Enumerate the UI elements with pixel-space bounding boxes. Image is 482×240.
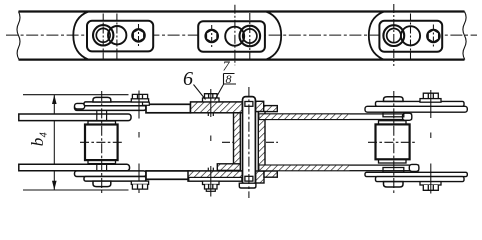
node: arrow up of b4 bbox=[52, 95, 57, 104]
node: bolt3 nut top bbox=[203, 98, 220, 102]
node: left break line bbox=[17, 12, 20, 60]
node: roller left bbox=[85, 125, 118, 161]
node: pin circle left link bbox=[108, 26, 126, 44]
node: nut top bolt2 bbox=[132, 94, 147, 98]
node: middle long plate top bbox=[259, 114, 412, 120]
node: bushing plate stub top pin5 bbox=[383, 112, 404, 117]
node: frame of label 8 bbox=[224, 74, 237, 85]
wire: centerline bolt3 lower bbox=[210, 166, 212, 197]
wire: centerline pin1 top view bbox=[102, 14, 104, 59]
node: plate B upper left end cap bbox=[75, 103, 85, 109]
node: bolt3 shank lower stub bbox=[208, 168, 213, 171]
node: plate A upper right bbox=[376, 101, 465, 106]
node: bushing washer bottom pin5 bbox=[379, 159, 407, 163]
wire: horizontal centerline left roller bbox=[80, 141, 123, 143]
node: bolt hexagon middle link bbox=[207, 30, 217, 42]
node: bushing circle right link bbox=[387, 28, 401, 42]
wire: centerline pin2 top view bbox=[116, 14, 118, 59]
node: cotter hole top bbox=[245, 102, 253, 107]
wire: centerline bolt4 elevation bbox=[430, 90, 432, 194]
node: outer plate arc middle link bbox=[266, 12, 281, 60]
node: bushing circle middle link bbox=[243, 29, 257, 43]
node: inner plate right link bbox=[379, 21, 442, 52]
wire: centerline bolt3 top view bbox=[432, 25, 434, 49]
node: plate A lower right bbox=[376, 177, 465, 182]
node: attachment bottom flange white strip bbox=[189, 177, 242, 181]
wire: centerline pin1 elevation bbox=[101, 91, 103, 194]
wire: extension line bottom for b4 bbox=[23, 189, 129, 191]
node: long attachment bar upper left bbox=[19, 114, 131, 121]
wire: centerline pin6 top view bbox=[410, 14, 412, 59]
node: washer top bolt4 bbox=[420, 99, 441, 103]
node: nut bottom bolt2 bbox=[132, 184, 147, 189]
node: plate B lower left bbox=[75, 171, 147, 177]
node: long attachment bar lower left bbox=[19, 164, 130, 171]
node: nut bottom bolt4 bbox=[423, 185, 438, 190]
node: right break line bbox=[463, 12, 466, 60]
wire: horizontal centerline central left segment bbox=[222, 141, 234, 143]
node: roller circle right link bbox=[383, 25, 404, 46]
node: plate A lower left bbox=[84, 177, 146, 182]
node: plate B lower right bbox=[365, 172, 467, 176]
node: middle link bar upper bbox=[146, 104, 191, 113]
node: right flange short hatched bbox=[264, 106, 278, 112]
node: roller circle middle link bbox=[240, 26, 261, 47]
node: plate B upper left bbox=[75, 105, 147, 110]
node: washer top bolt2 bbox=[131, 99, 148, 102]
node: bushing washer bottom pin1 bbox=[88, 160, 116, 164]
node: middle link bar upper left step bbox=[143, 102, 150, 105]
node: rivet dome head bottom pin5 bbox=[384, 182, 404, 187]
node: bolt3 cap top bbox=[205, 94, 218, 98]
wire: dimension line b4 bbox=[53, 95, 55, 190]
node: central pin bottom cap bbox=[239, 183, 256, 188]
wire: horizontal centerline of top view bbox=[6, 34, 477, 36]
wire: centerline central pin bbox=[248, 87, 250, 198]
node: right flange tall hatched bbox=[256, 101, 264, 111]
node: bolt hexagon left link bbox=[133, 29, 143, 41]
node: bolt3 nut bottom bbox=[205, 185, 218, 190]
node: washer bottom bolt2 bbox=[131, 181, 148, 184]
node: bolt hexagon right link bbox=[428, 30, 438, 42]
svg-text:8: 8 bbox=[226, 72, 232, 86]
node: middle long plate top hatch bbox=[260, 114, 350, 119]
wire: centerline pin3 top view with leader for item 7 bbox=[234, 5, 236, 66]
node: attachment top flange hatched bbox=[191, 102, 243, 113]
wire: chain band top edge bbox=[19, 10, 465, 12]
node: inner plate middle link bbox=[198, 21, 265, 52]
node: attachment bottom flange hatched bbox=[188, 171, 242, 181]
node: nut top bolt4 bbox=[423, 93, 438, 98]
node: middle long plate bottom cap bbox=[409, 164, 419, 171]
node: bolt2 shank bbox=[138, 91, 140, 194]
node: rivet dome head bottom pin1 bbox=[93, 181, 111, 187]
node: bolt circle left link bbox=[132, 29, 145, 42]
node: pin circle right link bbox=[401, 26, 420, 45]
wire: chain band bottom edge bbox=[19, 58, 465, 60]
node: outer plate arc right link bbox=[369, 12, 384, 60]
wire: horizontal centerline central right segment bbox=[266, 141, 278, 143]
node: pin1 shank upper bbox=[97, 110, 107, 121]
node: roller right bbox=[376, 124, 410, 159]
node: bolt3 shank upper stub bbox=[208, 113, 213, 116]
node: bolt circle right link bbox=[427, 30, 440, 43]
node: rivet dome head top pin1 bbox=[93, 97, 111, 102]
node: right bottom flange tall hatched bbox=[256, 171, 264, 183]
node: bolt3 washer bottom bbox=[203, 181, 220, 184]
node: middle long plate bottom hatch bbox=[260, 166, 350, 171]
wire: centerline pin4 top view bbox=[249, 13, 251, 59]
svg-text:6: 6 bbox=[183, 68, 193, 90]
wire: centerline pin5 top view bbox=[393, 4, 395, 66]
node: central pin body bbox=[243, 97, 256, 188]
wire: centerline bolt1 top view bbox=[138, 24, 140, 48]
node: plate A upper left bbox=[84, 102, 146, 106]
wire: centerline bolt2 top view bbox=[211, 25, 213, 48]
node: arrow down of b4 bbox=[52, 181, 57, 190]
wire: centerline pin5 elevation bbox=[393, 91, 395, 194]
node: bolt circle middle link bbox=[205, 30, 218, 43]
node: inner plate left link bbox=[87, 21, 153, 52]
node: roller circle left link bbox=[93, 25, 113, 45]
node: bushing washer top pin1 bbox=[88, 121, 116, 125]
node: middle long plate bottom bbox=[259, 165, 419, 171]
svg-text:b₄: b₄ bbox=[28, 132, 47, 147]
node: pin1 shank lower bbox=[97, 164, 107, 171]
node: plate B upper right bbox=[365, 106, 467, 112]
node: rivet dome head top pin5 bbox=[384, 97, 404, 102]
node: washer bottom bolt4 bbox=[420, 182, 441, 185]
wire: centerline bolt3 upper bbox=[210, 89, 212, 141]
wire: extension line top for b4 bbox=[23, 94, 129, 96]
node: attachment right web hatched bbox=[258, 112, 265, 172]
node: leader line item 8 bbox=[215, 84, 225, 101]
node: attachment web hatched bbox=[234, 113, 241, 171]
node: middle long plate top cap bbox=[403, 113, 412, 120]
node: middle link bar lower bbox=[146, 171, 191, 179]
node: attachment bottom foot hatched bbox=[217, 164, 240, 171]
node: bushing circle left link bbox=[96, 28, 110, 42]
node: bushing washer top pin5 bbox=[379, 121, 407, 125]
node: right bottom flange short hatched bbox=[264, 171, 277, 177]
wire: horizontal centerline right roller bbox=[368, 141, 416, 143]
node: pin circle middle link bbox=[225, 27, 244, 46]
node: bolt3 tip bottom bbox=[206, 189, 215, 191]
node: bushing plate stub bottom pin5 bbox=[383, 168, 404, 173]
node: leader line item 6 bbox=[194, 85, 206, 100]
node: cotter hole bottom bbox=[245, 176, 253, 181]
node: outer plate arc left link bbox=[73, 12, 88, 60]
